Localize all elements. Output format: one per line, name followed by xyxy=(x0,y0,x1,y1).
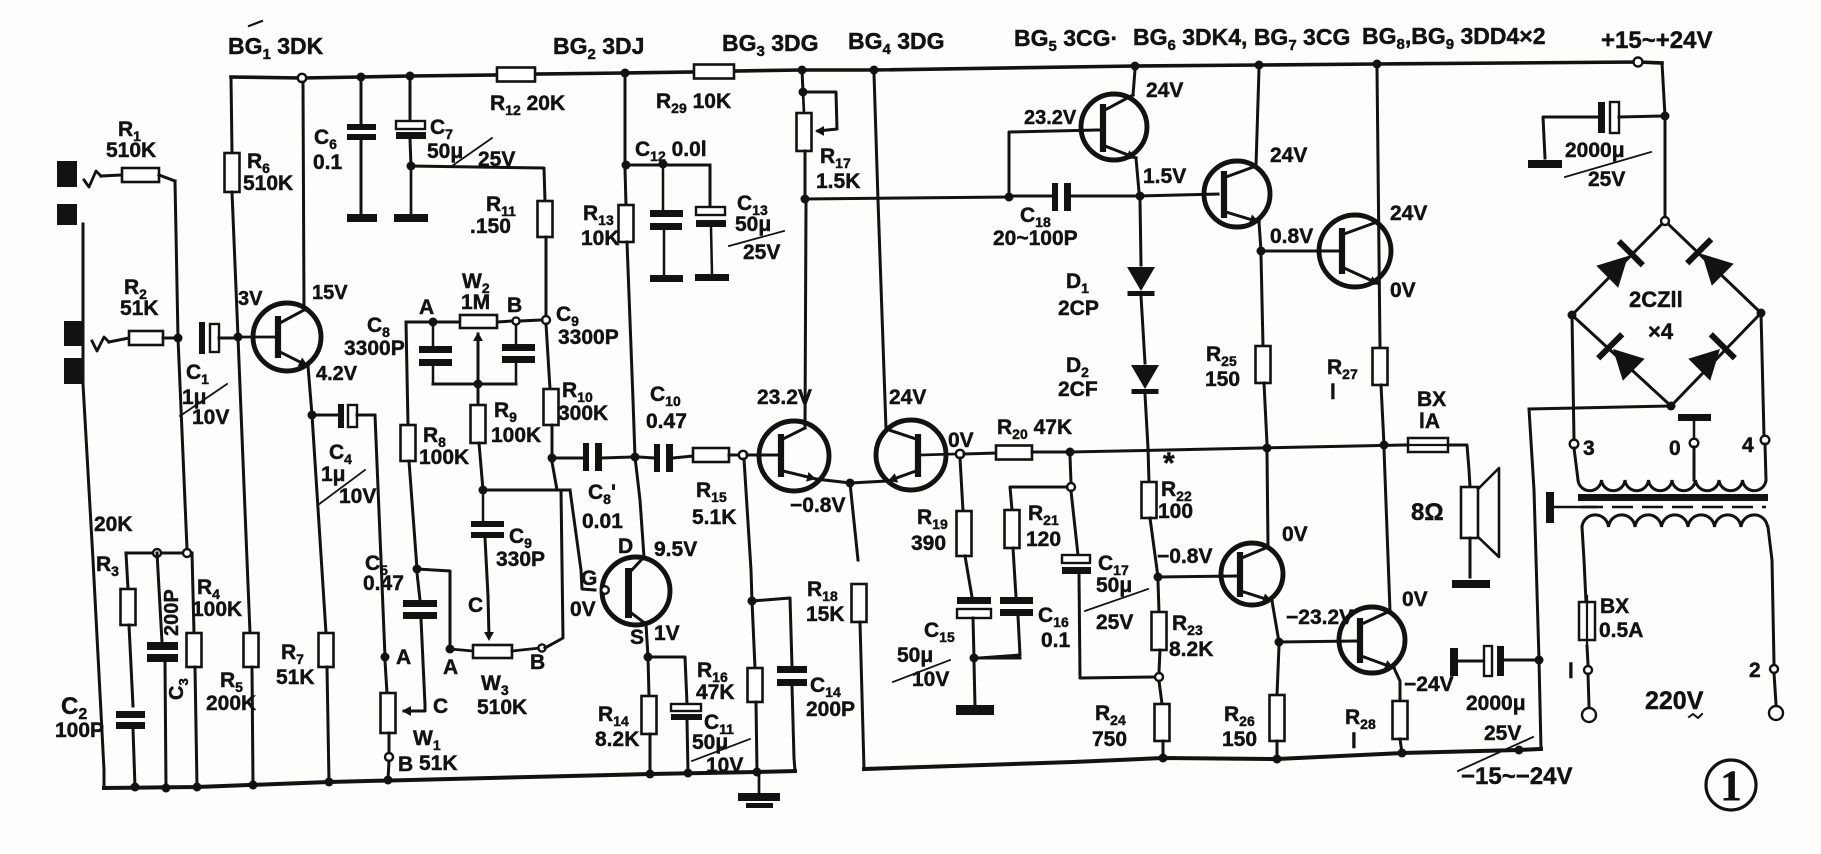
svg-text:0V: 0V xyxy=(948,429,974,452)
svg-text:0.01: 0.01 xyxy=(582,510,623,533)
wire source to C11 xyxy=(648,657,687,704)
terminal 1a xyxy=(1584,666,1592,674)
svg-text:R12​ 20K: R12​ 20K xyxy=(490,92,565,118)
diode bridge LL xyxy=(1613,349,1645,381)
node R8-C5 xyxy=(413,565,422,574)
wire BG6 collector xyxy=(1256,69,1259,166)
svg-text:5.1K: 5.1K xyxy=(692,506,736,529)
node drain junction xyxy=(631,453,640,462)
svg-text:B: B xyxy=(398,753,413,776)
capacitor C17 xyxy=(1062,555,1090,563)
svg-text:8.2K: 8.2K xyxy=(1169,638,1213,661)
node rail-BG5 xyxy=(1131,62,1140,71)
wire R17 stub xyxy=(802,70,803,92)
wire emitter to R7 xyxy=(312,415,326,633)
node rail R7 xyxy=(325,778,334,787)
svg-text:150: 150 xyxy=(1205,368,1240,391)
svg-text:1M: 1M xyxy=(461,291,490,314)
node C12 cap xyxy=(659,160,668,169)
node B xyxy=(512,317,519,324)
core xyxy=(1578,494,1768,501)
svg-text:1μ: 1μ xyxy=(321,463,346,486)
svg-text:20~100P: 20~100P xyxy=(993,227,1078,250)
resistor R1 xyxy=(101,175,122,176)
wire BG7 collector-emitter column xyxy=(1377,68,1380,348)
node cap2000 top xyxy=(1661,112,1670,121)
node R17 bottom xyxy=(801,195,810,204)
wire negative rail xyxy=(864,749,1541,769)
capacitor C2000 bottom xyxy=(1450,648,1458,676)
node C7 junction xyxy=(407,162,416,171)
svg-text:24V: 24V xyxy=(1390,202,1427,225)
node R17 wiper xyxy=(799,88,808,97)
wire R21 branch xyxy=(1010,487,1067,510)
node rail R5 xyxy=(249,781,258,790)
svg-text:G: G xyxy=(581,567,597,590)
svg-text:15V: 15V xyxy=(312,282,348,304)
resistor R25 xyxy=(1261,255,1263,346)
svg-text:−15~−24V: −15~−24V xyxy=(1461,763,1572,790)
node W3 A xyxy=(446,645,455,654)
svg-text:0V: 0V xyxy=(1390,279,1416,302)
svg-text:3300P: 3300P xyxy=(344,337,405,360)
wire emitter bus xyxy=(850,481,888,483)
wire base node to R16 xyxy=(744,459,752,601)
resistor R10 xyxy=(546,324,550,389)
wire jack shield xyxy=(82,224,85,384)
svg-text:9.5V: 9.5V xyxy=(654,538,697,561)
svg-text:100K: 100K xyxy=(419,446,469,469)
wire BG3 emitter xyxy=(816,479,850,483)
svg-text:l: l xyxy=(1568,660,1574,683)
node 2000u tap xyxy=(1535,656,1544,665)
wire BG9 collector xyxy=(1384,449,1390,611)
capacitor C11 xyxy=(671,704,701,711)
wire B to R11col xyxy=(520,320,542,321)
capacitor C12 xyxy=(662,164,665,210)
svg-text:l: l xyxy=(1330,381,1336,404)
resistor R5 xyxy=(244,633,259,667)
svg-text:330P: 330P xyxy=(496,548,545,571)
svg-text:24V: 24V xyxy=(1146,79,1183,102)
wire fuse to term1 xyxy=(1587,646,1588,664)
node BG1 base xyxy=(234,333,243,342)
transistor BG9 xyxy=(1339,607,1405,673)
wiper W1 xyxy=(404,705,425,711)
transistor BG1 xyxy=(253,303,321,371)
svg-text:0V: 0V xyxy=(570,598,596,621)
diode bridge UR xyxy=(1702,254,1734,286)
svg-text:100K: 100K xyxy=(192,598,242,621)
svg-text:C12​ 0.0l: C12​ 0.0l xyxy=(635,138,707,164)
wire R1-R2 column xyxy=(175,181,187,549)
svg-text:20K: 20K xyxy=(94,513,133,536)
svg-text:BG3​ 3DG: BG3​ 3DG xyxy=(722,30,819,60)
node rail +V terminal xyxy=(1634,58,1643,67)
terminal bar C12 xyxy=(650,275,683,282)
wire base BG6 xyxy=(1140,194,1218,196)
terminal bar C7 xyxy=(410,170,413,214)
svg-text:B: B xyxy=(530,651,545,674)
resistor R19 xyxy=(960,458,963,511)
wire top +V rail xyxy=(231,75,497,78)
capacitor C18 xyxy=(1009,195,1052,198)
winding secondary xyxy=(1578,480,1766,491)
diode bridge LR xyxy=(1688,349,1720,381)
wire bottom ground rail xyxy=(104,771,795,788)
input jack J2 xyxy=(64,321,82,346)
capacitor C4 xyxy=(312,414,338,417)
svg-text:23.2V: 23.2V xyxy=(757,386,812,409)
diode bridge UL xyxy=(1596,256,1628,288)
svg-text:−24V: −24V xyxy=(1404,673,1454,696)
resistor R20 xyxy=(964,453,996,454)
wire output line xyxy=(1070,445,1404,452)
figure number 1 xyxy=(1706,760,1756,810)
svg-text:510K: 510K xyxy=(477,696,527,719)
svg-text:25V: 25V xyxy=(1096,611,1133,634)
node W2 wiper junction xyxy=(474,380,483,389)
resistor R18 xyxy=(852,584,867,622)
capacitor C13 xyxy=(709,165,712,207)
wire BG6 emitter xyxy=(1259,222,1261,251)
node bridge top xyxy=(1661,217,1669,225)
fuse BX 1A xyxy=(1408,438,1448,452)
svg-text:R20​ 47K: R20​ 47K xyxy=(997,416,1072,442)
resistor R26 xyxy=(1277,646,1279,695)
node W1 bottom B xyxy=(385,753,393,761)
winding primary xyxy=(1582,515,1768,527)
potentiometer R17 xyxy=(803,92,804,113)
capacitor C8 xyxy=(432,326,435,346)
node rail-C7 xyxy=(406,72,415,81)
resistor R11 xyxy=(538,201,553,237)
svg-text:3: 3 xyxy=(1583,437,1595,460)
wire term4 down xyxy=(1765,444,1766,480)
svg-text:0.5A: 0.5A xyxy=(1599,619,1643,642)
transistor BG7 xyxy=(1319,215,1391,287)
svg-text:BG4​ 3DG: BG4​ 3DG xyxy=(848,28,945,58)
svg-text:47K: 47K xyxy=(696,681,735,704)
fuse BX 0.5A xyxy=(1579,602,1595,640)
svg-text:8Ω: 8Ω xyxy=(1411,499,1444,526)
node rail R24 xyxy=(1159,754,1168,763)
node R23-R24 xyxy=(1155,673,1163,681)
svg-text:10V: 10V xyxy=(706,754,743,777)
node R21 tee xyxy=(1067,483,1075,491)
node rail R28 xyxy=(1398,749,1407,758)
terminal 4 xyxy=(1761,436,1770,445)
node rail-BG2 column xyxy=(621,69,630,78)
svg-text:2: 2 xyxy=(1749,659,1761,682)
capacitor C7 xyxy=(409,76,412,121)
svg-text:510K: 510K xyxy=(243,172,293,195)
node R16 top xyxy=(748,597,757,606)
svg-text:2CZll: 2CZll xyxy=(1629,287,1683,312)
capacitor C15 xyxy=(957,597,991,604)
node BG9 collector out xyxy=(1380,441,1389,450)
svg-text:25V: 25V xyxy=(1484,722,1521,745)
svg-text:50μ: 50μ xyxy=(735,213,771,236)
resistor R12 xyxy=(497,68,535,82)
wire y553 bus xyxy=(126,552,192,555)
resistor R29 xyxy=(694,65,734,79)
node rail-BG6 xyxy=(1255,61,1264,70)
node R9 bottom xyxy=(479,486,488,495)
transistor BG5 xyxy=(1081,94,1147,160)
svg-text:C: C xyxy=(468,594,483,617)
terminal 0 xyxy=(1690,439,1699,448)
svg-text:3300P: 3300P xyxy=(558,326,619,349)
svg-text:0: 0 xyxy=(1669,437,1681,460)
svg-text:×4: ×4 xyxy=(1648,319,1674,344)
wire BG8 collector xyxy=(1267,452,1268,547)
node W3 B xyxy=(538,644,545,651)
node C15 bottom xyxy=(970,654,979,663)
svg-text:1V: 1V xyxy=(654,622,680,645)
resistor R6 xyxy=(231,77,232,153)
node rail-BG4 xyxy=(870,66,879,75)
node source xyxy=(644,653,653,662)
resistor R3 xyxy=(126,553,128,589)
node rail-BG7 xyxy=(1373,60,1382,69)
wire A line xyxy=(406,321,460,324)
svg-text:0V: 0V xyxy=(1282,523,1308,546)
transistor BG8 xyxy=(1221,543,1283,605)
svg-text:220V: 220V xyxy=(1645,687,1704,715)
terminal bar C6 xyxy=(347,214,377,222)
wire R13 to drain xyxy=(635,457,644,557)
node R2-C1 xyxy=(174,334,183,343)
svg-text:200K: 200K xyxy=(206,692,256,715)
svg-text:200P: 200P xyxy=(161,589,183,636)
ground C15 xyxy=(974,662,975,706)
svg-text:.150: .150 xyxy=(470,215,511,238)
potentiometer W3 xyxy=(450,649,473,651)
svg-text:25V: 25V xyxy=(1588,168,1625,191)
svg-text:−0.8V: −0.8V xyxy=(790,494,845,517)
node R1col bottom xyxy=(183,549,191,557)
wire -V riser xyxy=(1529,409,1541,749)
node 1.5V xyxy=(1136,192,1145,201)
node rail C11 xyxy=(684,769,693,778)
svg-text:2000μ: 2000μ xyxy=(1565,139,1625,162)
transistor BG2 FET xyxy=(602,557,670,625)
svg-text:100P: 100P xyxy=(55,719,104,742)
transistor BG3 xyxy=(759,421,829,491)
capacitor C14 xyxy=(777,666,807,673)
svg-text:*: * xyxy=(1163,447,1175,480)
node C9-R11 xyxy=(542,316,550,324)
wire term1 xyxy=(1588,674,1589,706)
resistor R28 xyxy=(1393,701,1408,739)
wire BG5 collector xyxy=(1133,70,1135,95)
wiper R17 xyxy=(803,92,837,131)
svg-text:A: A xyxy=(396,646,411,669)
capacitor C10 xyxy=(639,457,655,458)
wire to gate xyxy=(570,490,595,590)
wire term2 xyxy=(1774,673,1776,704)
wire term3 down xyxy=(1574,448,1578,480)
capacitor C16 xyxy=(1000,597,1033,604)
terminal bar C13 xyxy=(695,274,729,281)
transistor BG6 xyxy=(1204,161,1270,227)
svg-text:24V: 24V xyxy=(889,386,926,409)
svg-text:0.1: 0.1 xyxy=(313,151,343,174)
node A xyxy=(429,318,438,327)
svg-text:10V: 10V xyxy=(339,485,376,508)
svg-text:1: 1 xyxy=(1720,763,1742,810)
terminal 2a xyxy=(1770,665,1778,673)
svg-text:BX: BX xyxy=(1600,595,1629,618)
node C3 top xyxy=(153,549,161,557)
wire +V drop xyxy=(1662,63,1665,217)
node R10 bottom xyxy=(548,454,557,463)
svg-text:2CF: 2CF xyxy=(1058,378,1098,401)
node -23.2V xyxy=(1275,638,1284,647)
wire R10col down xyxy=(552,462,557,490)
svg-text:100: 100 xyxy=(1158,500,1193,523)
svg-text:B: B xyxy=(507,294,522,317)
node BG4 base term xyxy=(956,450,964,458)
svg-text:120: 120 xyxy=(1026,528,1061,551)
ground speaker xyxy=(1452,580,1490,588)
capacitor C1 xyxy=(199,322,205,354)
wire W1 to rail xyxy=(388,761,389,780)
resistor R23 xyxy=(1158,581,1159,612)
svg-text:3V: 3V xyxy=(238,288,263,310)
node rail-BG1 xyxy=(298,74,306,82)
svg-text:2CP: 2CP xyxy=(1058,297,1099,320)
wire BG8 emitter xyxy=(1272,601,1279,642)
resistor R4 xyxy=(192,553,194,633)
resistor R14 xyxy=(648,657,649,696)
svg-text:51K: 51K xyxy=(419,752,458,775)
capacitor C8p xyxy=(552,457,583,460)
potentiometer W1 xyxy=(385,661,387,693)
capacitor C2 xyxy=(116,711,145,718)
node rail R14 xyxy=(646,770,655,779)
wire term0 down xyxy=(1693,447,1696,480)
svg-text:lA: lA xyxy=(1419,410,1440,433)
gate circle xyxy=(601,586,609,594)
wire input squiggle 1 xyxy=(84,171,101,187)
svg-text:200P: 200P xyxy=(806,698,855,721)
resistor R16 xyxy=(752,601,755,668)
svg-text:D: D xyxy=(618,535,633,558)
node emitter join xyxy=(846,479,855,488)
transistor BG4 xyxy=(876,420,946,490)
resistor R22 xyxy=(1142,482,1157,518)
wire C5 branch xyxy=(417,569,450,649)
svg-text:50μ: 50μ xyxy=(897,644,933,667)
svg-text:−0.8V: −0.8V xyxy=(1157,545,1212,568)
wire BG5 emitter xyxy=(1136,158,1139,192)
svg-text:24V: 24V xyxy=(1270,144,1307,167)
wire base BG8 xyxy=(1158,576,1236,577)
ground main xyxy=(758,776,761,794)
wire C12 bus xyxy=(626,164,710,167)
diode D2 xyxy=(1131,365,1159,389)
wire to C14 xyxy=(752,598,792,666)
svg-text:10K: 10K xyxy=(581,227,620,250)
resistor R8 xyxy=(406,322,408,425)
potentiometer W2 xyxy=(460,315,497,328)
svg-text:4.2V: 4.2V xyxy=(316,363,358,385)
node rail-R17 xyxy=(798,66,807,75)
resistor R15 xyxy=(693,448,729,462)
node C18 tee xyxy=(1005,193,1014,202)
svg-text:0.47: 0.47 xyxy=(646,410,687,433)
wire bridge neg out xyxy=(1530,406,1671,409)
resistor R9 xyxy=(477,384,480,405)
wire D2 to R22 xyxy=(1145,394,1149,482)
ground transformer tap xyxy=(1678,414,1711,421)
svg-text:10V: 10V xyxy=(912,668,949,691)
node rail C2 xyxy=(131,783,140,792)
node rail W1 xyxy=(384,776,393,785)
svg-text:100K: 100K xyxy=(491,424,541,447)
wire base to R5 xyxy=(238,337,250,633)
svg-text:390: 390 xyxy=(911,532,946,555)
svg-text:A: A xyxy=(419,296,434,319)
wire BG9 emitter xyxy=(1394,668,1400,701)
wire R13 column to D xyxy=(624,77,627,161)
node 0.8V xyxy=(1257,247,1266,256)
svg-text:0.8V: 0.8V xyxy=(1270,225,1313,248)
svg-text:C: C xyxy=(433,695,448,718)
node bridge bottom xyxy=(1667,402,1676,411)
svg-text:2000μ: 2000μ xyxy=(1466,692,1526,715)
wire BG4 collector xyxy=(874,74,886,429)
diode D1 xyxy=(1127,267,1155,291)
node C12 xyxy=(622,161,631,170)
svg-text:23.2V: 23.2V xyxy=(1024,107,1077,129)
svg-text:51K: 51K xyxy=(120,297,159,320)
svg-text:BG2​ 3DJ: BG2​ 3DJ xyxy=(553,33,644,63)
wire primary left xyxy=(1582,527,1586,602)
resistor R2 xyxy=(109,338,129,342)
svg-text:C8​': C8​' xyxy=(588,481,616,507)
svg-text:S: S xyxy=(630,626,644,649)
capacitor C2000 top xyxy=(1598,102,1605,133)
terminal 3 xyxy=(1570,440,1579,449)
svg-text:50μ: 50μ xyxy=(1096,574,1132,597)
node R20 out xyxy=(1066,448,1075,457)
svg-text:BG1​ 3DK: BG1​ 3DK xyxy=(228,33,324,63)
node R25 out xyxy=(1263,444,1272,453)
svg-text:15K: 15K xyxy=(806,603,845,626)
resistor R24 xyxy=(1159,681,1162,704)
wire D1-D2 xyxy=(1141,296,1145,363)
node -0.8V xyxy=(1154,573,1163,582)
ground 2000u xyxy=(1528,160,1562,168)
svg-text:0.1: 0.1 xyxy=(1041,629,1071,652)
wire C15-C16 join xyxy=(974,657,1020,660)
node W1 top A xyxy=(381,653,390,662)
bridge wires xyxy=(1572,221,1761,406)
wire base BG9 xyxy=(1279,641,1356,642)
svg-text:BX: BX xyxy=(1417,388,1446,411)
wire BG3 collector xyxy=(805,203,806,428)
wire C8-C9 bottoms xyxy=(433,383,516,386)
svg-text:750: 750 xyxy=(1092,728,1127,751)
wire BG1 emitter xyxy=(308,366,312,415)
resistor R7 xyxy=(319,633,334,667)
wire R21 drop xyxy=(1070,456,1071,483)
svg-text:l: l xyxy=(1351,730,1357,753)
svg-text:0V: 0V xyxy=(1402,588,1428,611)
